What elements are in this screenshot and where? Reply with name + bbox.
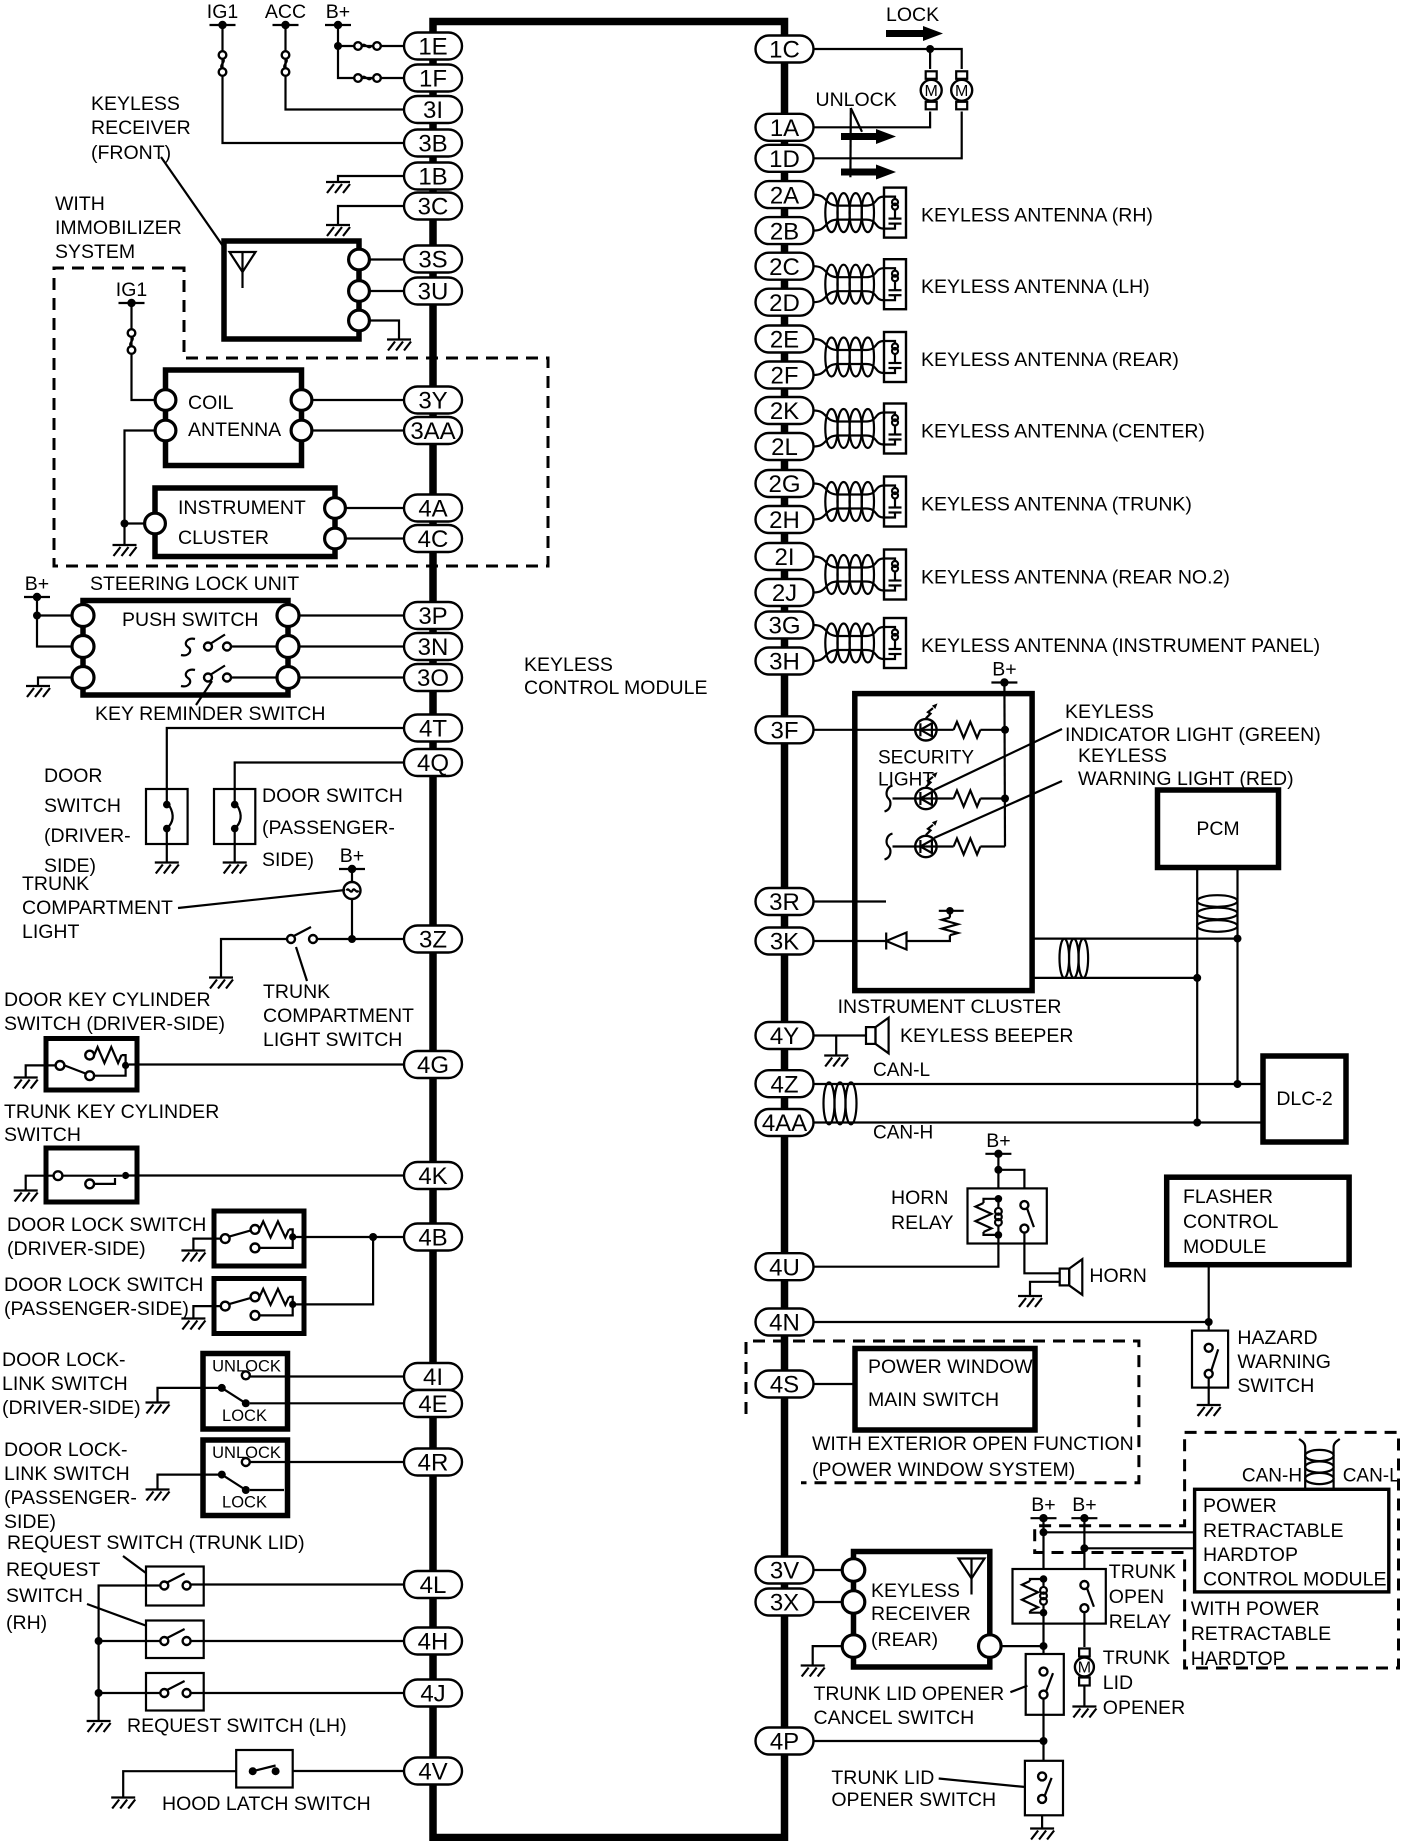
svg-text:DOOR LOCK-: DOOR LOCK-: [4, 1439, 128, 1461]
security LED resistor: [937, 797, 954, 799]
pin 3C: [404, 193, 462, 221]
opener switch contacts: [1038, 1772, 1052, 1803]
wire horn relay to 4U: [814, 1235, 999, 1267]
CAN twisted pair at module: [824, 1082, 835, 1124]
svg-text:4T: 4T: [419, 716, 447, 743]
horn relay switch: [1020, 1201, 1034, 1233]
svg-text:POWER WINDOW: POWER WINDOW: [868, 1356, 1033, 1378]
svg-text:(DRIVER-SIDE): (DRIVER-SIDE): [2, 1397, 141, 1419]
wire trunk key cylinder to 4K: [129, 1174, 404, 1176]
ground for steering lock unit: [26, 686, 50, 697]
svg-text:4G: 4G: [417, 1052, 449, 1079]
svg-text:OPENER SWITCH: OPENER SWITCH: [831, 1789, 996, 1811]
svg-text:3B: 3B: [418, 131, 447, 158]
lock arrow: [886, 26, 943, 41]
wire pin 1B to ground: [338, 176, 404, 182]
door lock switch driver internals: [229, 1229, 293, 1248]
pin 2B: [756, 217, 814, 245]
pin 4L: [404, 1571, 462, 1599]
twisted pair coil INSTRUMENT PANEL: [825, 624, 837, 663]
ground request switch bus: [87, 1721, 111, 1732]
svg-text:STEERING LOCK UNIT: STEERING LOCK UNIT: [90, 573, 299, 595]
antenna unit box REAR: [884, 332, 906, 382]
svg-text:B+: B+: [1031, 1494, 1055, 1516]
svg-text:B+: B+: [340, 845, 364, 867]
wire request RH to bus: [99, 1640, 161, 1642]
pin 4S: [756, 1371, 814, 1399]
svg-text:HARDTOP: HARDTOP: [1191, 1648, 1286, 1670]
junction 3Z bulb: [348, 935, 356, 943]
svg-text:SWITCH: SWITCH: [6, 1585, 83, 1607]
beeper ground wire: [835, 1036, 837, 1056]
pin 3X: [756, 1589, 814, 1617]
wire door key cylinder to 4G: [129, 1063, 404, 1065]
pin 4Z: [756, 1070, 814, 1098]
wire receiver pin to 3S: [359, 258, 404, 260]
wire bulb to 3Z junction: [351, 899, 353, 939]
wire instrument cluster left pin to bus: [125, 524, 156, 546]
B+ wire to hardtop module upper: [1042, 1518, 1044, 1579]
svg-text:KEYLESS ANTENNA (INSTRUMENT PA: KEYLESS ANTENNA (INSTRUMENT PANEL): [921, 635, 1320, 657]
svg-text:CONTROL: CONTROL: [1183, 1211, 1278, 1233]
wire door lock switch passenger to 4B junction: [296, 1237, 373, 1304]
svg-text:FLASHER: FLASHER: [1183, 1186, 1273, 1208]
trunk open relay switch: [1080, 1581, 1094, 1612]
pin 4P: [756, 1728, 814, 1756]
svg-text:4L: 4L: [420, 1572, 447, 1599]
security light LED: [915, 772, 937, 809]
power window main switch box: [855, 1349, 1035, 1431]
junction hardtop feed lower: [1080, 1544, 1088, 1552]
wire 4N to hazard: [814, 1321, 1209, 1323]
wire IG1 to pin 3B: [223, 25, 405, 143]
svg-text:(PASSENGER-: (PASSENGER-: [4, 1487, 137, 1509]
wire receiver rear ground: [813, 1646, 854, 1665]
svg-text:(RH): (RH): [6, 1612, 47, 1634]
ground door key cylinder: [14, 1078, 38, 1089]
door switch passenger box: [214, 789, 255, 844]
svg-text:3V: 3V: [770, 1558, 799, 1585]
hood latch switch box: [236, 1750, 293, 1788]
power tap B+ trunk open relay switch: [1071, 1494, 1097, 1522]
junction CAN-L PCM: [1234, 1080, 1242, 1088]
wire antenna pins INSTRUMENT PANEL: [814, 625, 885, 636]
power tap IG1 immobilizer: [116, 279, 147, 307]
trunk compartment light bulb: [344, 869, 361, 899]
wire hood latch to 4V: [293, 1770, 404, 1772]
svg-text:3Z: 3Z: [419, 927, 447, 954]
cancel switch contacts: [1040, 1668, 1054, 1699]
svg-text:MAIN SWITCH: MAIN SWITCH: [868, 1389, 999, 1411]
B+ wire to hardtop module lower: [1083, 1518, 1085, 1581]
svg-text:KEYLESS BEEPER: KEYLESS BEEPER: [900, 1025, 1073, 1047]
pin 3R: [756, 888, 814, 916]
svg-text:REQUEST SWITCH (TRUNK LID): REQUEST SWITCH (TRUNK LID): [7, 1532, 305, 1554]
wire to motor1 top: [929, 49, 931, 69]
pin 3U: [404, 278, 462, 306]
cluster CAN wires out: [1032, 937, 1237, 939]
ground door lock switch driver: [181, 1251, 205, 1262]
wire steering to 3O: [288, 676, 404, 678]
pin 4R: [404, 1449, 462, 1477]
door lock-link switch driver box: [203, 1354, 288, 1430]
wire steering to 3P: [288, 614, 404, 616]
cluster diode to resistor: [907, 935, 950, 941]
wire pin 3C to ground: [338, 206, 404, 225]
wire 3V to receiver rear: [814, 1569, 854, 1571]
svg-text:RETRACTABLE: RETRACTABLE: [1191, 1623, 1332, 1645]
svg-text:2A: 2A: [770, 182, 799, 209]
svg-text:2I: 2I: [774, 544, 794, 571]
unlock arrow 1: [841, 129, 896, 144]
svg-text:4V: 4V: [418, 1759, 447, 1786]
svg-text:COIL: COIL: [188, 392, 234, 414]
dashed boundary with power retractable hardtop: [1035, 1432, 1399, 1668]
svg-text:LOCK: LOCK: [886, 4, 939, 26]
junction on immobilizer ground bus: [121, 520, 129, 528]
svg-text:CANCEL SWITCH: CANCEL SWITCH: [814, 1707, 975, 1729]
svg-text:INSTRUMENT CLUSTER: INSTRUMENT CLUSTER: [838, 996, 1062, 1018]
antenna unit box LH: [884, 259, 906, 309]
svg-text:TRUNK LID OPENER: TRUNK LID OPENER: [814, 1683, 1005, 1705]
twisted pair coil CENTER: [825, 409, 837, 448]
wire 3Z to trunk light switch: [317, 938, 404, 940]
door lock-link switch passenger box: [203, 1440, 288, 1516]
twisted pair coil REAR: [825, 338, 837, 377]
cluster internal supply tap: [949, 911, 951, 918]
svg-text:REQUEST: REQUEST: [6, 1559, 100, 1581]
coil antenna box: [166, 370, 302, 466]
svg-text:WITH EXTERIOR OPEN FUNCTION: WITH EXTERIOR OPEN FUNCTION: [812, 1433, 1134, 1455]
door lock switch driver box: [214, 1211, 304, 1266]
svg-text:2D: 2D: [769, 290, 800, 317]
svg-text:3P: 3P: [418, 603, 447, 630]
wire door switch driver to ground: [166, 844, 168, 862]
door lock switch passenger internals: [229, 1297, 293, 1316]
horn relay coil: [995, 1199, 1002, 1235]
wire warning LED row: [893, 845, 916, 847]
door switch driver contacts: [166, 789, 168, 805]
twisted pair coil TRUNK: [825, 482, 837, 521]
pin 2D: [756, 289, 814, 317]
hazard warning switch box: [1192, 1331, 1228, 1388]
pin 4G: [404, 1051, 462, 1079]
svg-text:2H: 2H: [769, 507, 800, 534]
connector break on ACC wire: [282, 51, 290, 76]
trunk lid opener switch box: [1025, 1761, 1063, 1816]
svg-text:3O: 3O: [417, 665, 449, 692]
svg-text:(POWER WINDOW SYSTEM): (POWER WINDOW SYSTEM): [812, 1459, 1075, 1481]
wire steering to 3N: [288, 645, 404, 647]
svg-text:4K: 4K: [418, 1163, 447, 1190]
leader trunk compartment light: [178, 890, 345, 908]
svg-text:DOOR LOCK SWITCH: DOOR LOCK SWITCH: [4, 1274, 203, 1296]
svg-text:2G: 2G: [768, 471, 800, 498]
svg-text:(REAR): (REAR): [871, 1629, 938, 1651]
svg-text:3N: 3N: [418, 634, 449, 661]
svg-text:UNLOCK: UNLOCK: [816, 89, 897, 111]
door lock motor 2: [951, 71, 972, 109]
svg-text:WITH: WITH: [55, 193, 105, 215]
steering lock pin circles: [72, 605, 94, 627]
wire 1C to door lock motors: [814, 49, 962, 69]
wire steering pin3 to ground: [38, 678, 74, 687]
door switch passenger contacts: [234, 789, 236, 805]
svg-text:TRUNK: TRUNK: [1109, 1561, 1176, 1583]
trunk open relay coil: [1040, 1579, 1047, 1613]
keyless receiver front box: [224, 241, 359, 339]
trunk compartment light switch: [287, 927, 317, 943]
wire trunk key cylinder to ground: [26, 1176, 54, 1190]
wire antenna pins LH: [814, 266, 885, 277]
pin 4V: [404, 1758, 462, 1786]
wire instrument cluster to 4C: [335, 537, 404, 539]
wire security LED row: [893, 797, 916, 799]
wire 4S to power window main switch: [814, 1383, 856, 1385]
svg-text:RELAY: RELAY: [891, 1212, 954, 1234]
svg-text:TRUNK: TRUNK: [22, 873, 89, 895]
antenna unit internals REAR: [884, 341, 902, 373]
door key cylinder internals: [64, 1055, 125, 1076]
svg-text:COMPARTMENT: COMPARTMENT: [22, 897, 173, 919]
keyless indicator LED: [915, 703, 937, 740]
svg-text:4Q: 4Q: [417, 750, 449, 777]
svg-text:M: M: [955, 83, 968, 100]
power tap IG1: [207, 1, 238, 29]
junction 4B: [369, 1233, 377, 1241]
trunk open relay coil nodes: [1040, 1575, 1048, 1583]
pin 2J: [756, 579, 814, 607]
wire instrument cluster to 4A: [335, 507, 404, 509]
svg-text:DOOR KEY CYLINDER: DOOR KEY CYLINDER: [4, 989, 211, 1011]
svg-text:SWITCH (DRIVER-SIDE): SWITCH (DRIVER-SIDE): [4, 1013, 225, 1035]
ground door lock switch passenger: [181, 1319, 205, 1330]
svg-text:4AA: 4AA: [762, 1110, 807, 1137]
svg-text:3K: 3K: [770, 929, 799, 956]
unlock arrow 2: [841, 165, 896, 180]
wire antenna pins TRUNK: [814, 484, 885, 495]
pin 4H: [404, 1628, 462, 1656]
power tap B+ top: [325, 1, 351, 29]
pin 3K: [756, 928, 814, 956]
ground door switch driver: [155, 863, 179, 874]
svg-text:4E: 4E: [418, 1391, 447, 1418]
pin 3N: [404, 633, 462, 661]
svg-text:B+: B+: [992, 659, 1016, 681]
pin 1D: [756, 145, 814, 173]
svg-text:3F: 3F: [770, 718, 798, 745]
ground door switch passenger: [223, 863, 247, 874]
pin 3O: [404, 664, 462, 692]
svg-text:HOOD LATCH SWITCH: HOOD LATCH SWITCH: [162, 1793, 371, 1815]
door lock-link passenger contacts: [242, 1458, 250, 1466]
junction request bus RH: [95, 1637, 103, 1645]
ground for immobilizer bus: [113, 545, 137, 556]
svg-text:LOCK: LOCK: [222, 1494, 267, 1512]
svg-text:(PASSENGER-SIDE): (PASSENGER-SIDE): [4, 1298, 189, 1320]
wire coil antenna to 3Y: [302, 399, 405, 401]
ground trunk light switch: [209, 978, 233, 989]
pin 3S: [404, 246, 462, 274]
wire passenger unlock contact to 4R: [250, 1461, 404, 1463]
instrument cluster box right: [855, 694, 1032, 991]
trunk open relay resistor: [1030, 1579, 1044, 1581]
antenna symbol in keyless receiver front: [230, 252, 256, 288]
wire 4P to junction: [814, 1740, 1044, 1742]
door lock switch passenger box: [214, 1279, 304, 1334]
power retractable hardtop control module box: [1195, 1489, 1389, 1592]
pin 2G: [756, 470, 814, 498]
request switch RH contacts: [160, 1629, 190, 1645]
wire 4T to door switch driver: [167, 728, 404, 789]
svg-text:4N: 4N: [769, 1310, 800, 1337]
svg-text:LOCK: LOCK: [222, 1407, 267, 1425]
svg-text:4C: 4C: [418, 526, 449, 553]
svg-text:(DRIVER-SIDE): (DRIVER-SIDE): [7, 1238, 146, 1260]
svg-text:LIGHT: LIGHT: [22, 921, 80, 943]
horn speaker: [1060, 1259, 1083, 1295]
antenna unit box RH: [884, 188, 906, 238]
wire to horn relay switch: [998, 1170, 1024, 1201]
connector break on 1F wire: [354, 74, 381, 82]
horn relay resistor: [984, 1199, 999, 1203]
wire request LH to 4J: [191, 1692, 404, 1694]
svg-text:RETRACTABLE: RETRACTABLE: [1203, 1520, 1344, 1542]
svg-text:INDICATOR LIGHT (GREEN): INDICATOR LIGHT (GREEN): [1065, 724, 1321, 746]
antenna unit internals CENTER: [884, 413, 902, 445]
junction steering B+: [33, 612, 41, 620]
junction cluster CAN-L: [1234, 935, 1242, 943]
svg-text:POWER: POWER: [1203, 1495, 1277, 1517]
pin 2E: [756, 326, 814, 354]
wire receiver pin to 3U: [359, 290, 404, 292]
push switch symbol: [181, 639, 195, 656]
pin 4C: [404, 525, 462, 553]
svg-text:SECURITY: SECURITY: [878, 748, 974, 769]
pin 4A: [404, 495, 462, 523]
steering lock unit box: [83, 601, 288, 696]
svg-text:WARNING: WARNING: [1237, 1351, 1331, 1373]
coil antenna pin circles: [155, 390, 176, 411]
PCM wires down: [1196, 868, 1198, 1123]
warning LED resistor: [937, 845, 954, 847]
wire door lock switch driver to 4B: [296, 1236, 404, 1238]
svg-text:CAN-H: CAN-H: [1242, 1466, 1302, 1487]
svg-text:KEYLESS ANTENNA (RH): KEYLESS ANTENNA (RH): [921, 205, 1153, 227]
svg-text:4A: 4A: [418, 496, 447, 523]
svg-text:HORN: HORN: [1089, 1265, 1146, 1287]
request switch RH box: [146, 1621, 204, 1659]
wire motor1 to 1A: [814, 112, 931, 128]
wire request RH to 4H: [191, 1640, 404, 1642]
horn ground wire: [1030, 1282, 1060, 1296]
leader line to keyless receiver front: [161, 157, 225, 249]
keyless receiver rear pin circles: [842, 1559, 865, 1582]
svg-text:KEYLESS: KEYLESS: [524, 654, 613, 676]
svg-text:CAN-L: CAN-L: [1343, 1466, 1400, 1487]
svg-text:SIDE): SIDE): [262, 849, 314, 871]
svg-text:KEYLESS ANTENNA (REAR): KEYLESS ANTENNA (REAR): [921, 349, 1179, 371]
antenna unit internals RH: [884, 197, 902, 229]
svg-text:SIDE): SIDE): [4, 1511, 56, 1533]
svg-text:(PASSENGER-: (PASSENGER-: [262, 817, 395, 839]
ground hood latch switch: [111, 1798, 135, 1809]
wire hazard to ground: [1208, 1378, 1210, 1405]
pin 4Q: [404, 749, 462, 777]
door key cylinder switch box: [46, 1039, 137, 1091]
svg-text:4I: 4I: [423, 1364, 443, 1391]
junction receiver output: [1040, 1642, 1048, 1650]
wire 3X to receiver rear: [814, 1601, 854, 1603]
ground hazard switch: [1197, 1405, 1221, 1416]
connector break on IG1 wire: [219, 51, 227, 76]
svg-text:TRUNK: TRUNK: [1103, 1647, 1170, 1669]
svg-text:PUSH SWITCH: PUSH SWITCH: [122, 609, 259, 631]
svg-text:4U: 4U: [769, 1254, 800, 1281]
hood latch contacts: [249, 1767, 257, 1775]
svg-text:DOOR SWITCH: DOOR SWITCH: [262, 785, 403, 807]
svg-text:HAZARD: HAZARD: [1237, 1327, 1317, 1349]
pin 4J: [404, 1680, 462, 1708]
pin 1A: [756, 114, 814, 142]
wire request trunk lid to 4L: [191, 1583, 404, 1585]
wire cancel switch to 4P junction: [1042, 1699, 1044, 1761]
wire motor2 to 1D: [814, 112, 962, 159]
antenna symbol keyless receiver rear: [959, 1559, 985, 1595]
request switch LH contacts: [160, 1681, 190, 1697]
svg-text:B+: B+: [1072, 1494, 1096, 1516]
horn relay B+ wire: [997, 1154, 999, 1199]
svg-text:LID: LID: [1103, 1672, 1133, 1694]
ground door lock-link driver: [146, 1403, 170, 1414]
antenna unit internals REAR NO.2: [884, 559, 902, 591]
CAN twisted pair to hardtop module: [1299, 1439, 1305, 1489]
svg-text:KEYLESS: KEYLESS: [871, 1580, 960, 1602]
svg-text:WITH POWER: WITH POWER: [1191, 1598, 1320, 1620]
antenna unit box INSTRUMENT PANEL: [884, 618, 906, 668]
junction B+ branch: [334, 42, 342, 50]
svg-text:2L: 2L: [771, 434, 798, 461]
wire 3K to cluster diode: [814, 940, 887, 942]
pin 1C: [756, 36, 814, 64]
pin 3Z: [404, 926, 462, 954]
wire antenna pins RH: [814, 195, 885, 206]
wire receiver ground pin: [359, 321, 399, 340]
svg-text:3U: 3U: [418, 279, 449, 306]
instrument cluster (immobilizer) box: [155, 488, 335, 557]
pin 2F: [756, 362, 814, 390]
pin 2A: [756, 181, 814, 209]
wire receiver rear output: [990, 1645, 1044, 1647]
svg-text:LIGHT SWITCH: LIGHT SWITCH: [263, 1029, 402, 1051]
instrument cluster pin circles: [145, 513, 166, 534]
pin 4K: [404, 1162, 462, 1190]
svg-text:SWITCH: SWITCH: [1237, 1375, 1314, 1397]
svg-text:2C: 2C: [769, 254, 800, 281]
pin 4I: [404, 1363, 462, 1391]
junction security row: [1001, 795, 1009, 803]
pin 3P: [404, 602, 462, 630]
svg-text:3Y: 3Y: [418, 388, 447, 415]
wire 4Q to door switch passenger: [235, 763, 404, 790]
ground trunk lid opener switch: [1030, 1829, 1054, 1840]
svg-text:1E: 1E: [418, 34, 447, 61]
pin 3Y: [404, 387, 462, 415]
svg-text:HARDTOP: HARDTOP: [1203, 1544, 1298, 1566]
svg-text:CAN-H: CAN-H: [873, 1123, 933, 1144]
door switch driver box: [146, 789, 188, 844]
svg-text:MODULE: MODULE: [1183, 1236, 1266, 1258]
